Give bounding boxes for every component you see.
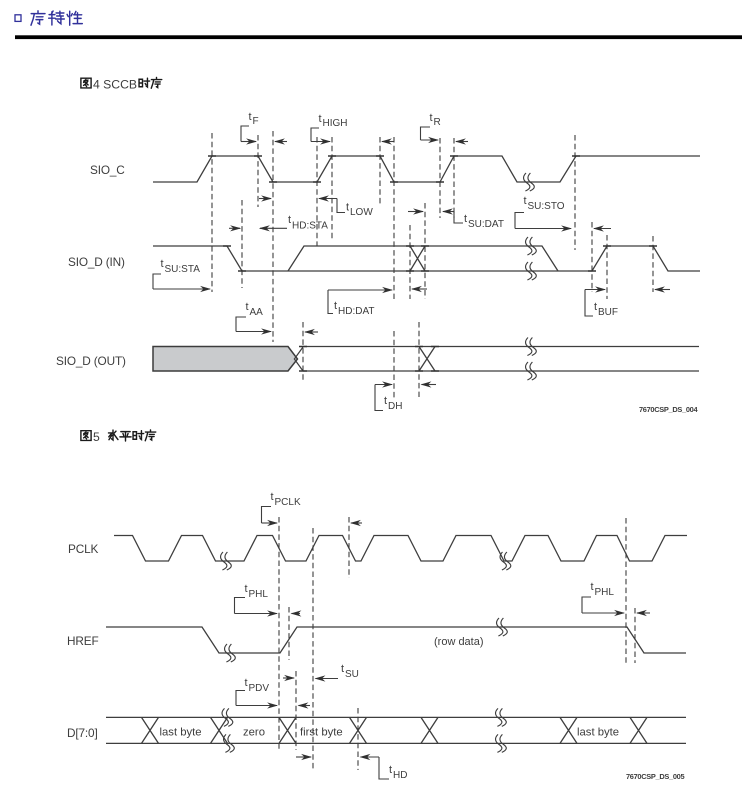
svg-text:SIO_D (IN): SIO_D (IN) xyxy=(68,255,125,269)
break marks D bus right top rail xyxy=(496,708,507,726)
arrow at x=635 xyxy=(637,612,650,614)
arrow at x=592 xyxy=(594,228,611,230)
break marks D bus right bottom rail xyxy=(496,734,507,752)
svg-text:HD:DAT: HD:DAT xyxy=(338,306,374,317)
dashed line x=410 xyxy=(409,225,411,299)
D[7:0] crossover X at 429.5 xyxy=(421,717,438,743)
D[7:0] crossover X at 287.5 xyxy=(279,717,296,743)
break marks PCLK left xyxy=(221,552,232,570)
D[7:0] crossover X at 638.5 xyxy=(630,717,647,743)
svg-text:(row data): (row data) xyxy=(434,636,484,648)
svg-text:SU:STO: SU:STO xyxy=(528,201,565,212)
waveform PCLK xyxy=(114,536,687,562)
label tPDV with leader xyxy=(236,677,277,706)
horizontal rule xyxy=(15,35,742,39)
label tSU:STA with leader xyxy=(153,258,210,289)
dashed line x=279 xyxy=(278,517,280,750)
arrow right edge of tAA interval xyxy=(305,331,318,333)
break marks D bus left bottom rail xyxy=(224,734,235,752)
break marks SIO_D(IN) high rail xyxy=(526,237,537,255)
svg-text:t: t xyxy=(341,663,344,675)
dashed line x=394 lower xyxy=(393,331,395,399)
dashed line x=626 xyxy=(625,518,627,663)
svg-text:t: t xyxy=(524,195,527,207)
label tAA with leader xyxy=(236,301,271,332)
label tF with leader xyxy=(241,111,259,142)
dashed line x=242 xyxy=(241,200,243,288)
D[7:0] crossover X at 568.5 xyxy=(560,717,577,743)
dashed line x=440 xyxy=(439,138,441,218)
SIO_D (OUT) open bus rails xyxy=(303,347,699,372)
dashed line x=419 (OUT row) xyxy=(418,322,420,397)
dashed line x=358 xyxy=(357,708,359,770)
svg-text:t: t xyxy=(246,301,249,313)
section title 序特性 xyxy=(31,11,82,25)
figure 4 caption 图4 SCCB时序 xyxy=(81,78,91,88)
svg-text:t: t xyxy=(594,301,597,313)
arrow right edge of tHIGH interval xyxy=(382,141,394,143)
svg-text:t: t xyxy=(271,491,274,503)
dashed line x=454 xyxy=(453,138,455,218)
dashed line x=313 xyxy=(312,528,314,770)
dashed line x=303 (OUT row) xyxy=(302,322,304,380)
svg-text:last byte: last byte xyxy=(160,727,202,739)
svg-text:PCLK: PCLK xyxy=(68,542,98,556)
svg-text:t: t xyxy=(346,202,349,214)
svg-text:F: F xyxy=(253,116,259,127)
arrow right edge of tPCLK interval xyxy=(351,522,362,524)
D[7:0] crossover X at 358 xyxy=(350,717,367,743)
svg-text:5: 5 xyxy=(93,430,100,444)
svg-text:t: t xyxy=(384,395,387,407)
svg-text:HD:STA: HD:STA xyxy=(292,221,328,232)
svg-text:D[7:0]: D[7:0] xyxy=(67,726,98,740)
svg-text:PHL: PHL xyxy=(595,587,615,598)
break marks SIO_D(IN) low rail xyxy=(526,262,537,280)
svg-text:zero: zero xyxy=(243,727,265,739)
svg-text:HIGH: HIGH xyxy=(323,118,348,129)
break marks PCLK right xyxy=(500,552,511,570)
svg-text:7670CSP_DS_005: 7670CSP_DS_005 xyxy=(626,772,684,781)
D[7:0] bus rails xyxy=(106,717,686,743)
D[7:0] crossover X at 150 xyxy=(142,717,159,743)
break marks SIO_D(OUT) bottom rail xyxy=(526,362,537,380)
svg-text:7670CSP_DS_004: 7670CSP_DS_004 xyxy=(639,405,698,414)
label tPHL (right) with leader xyxy=(582,581,624,613)
svg-text:R: R xyxy=(434,117,441,128)
svg-text:t: t xyxy=(161,258,164,270)
svg-text:PDV: PDV xyxy=(249,683,270,694)
arrow right edge of tR interval xyxy=(456,141,468,143)
dashed line x=296 xyxy=(295,671,297,750)
svg-text:t: t xyxy=(245,677,248,689)
label tHD:STA with arrows xyxy=(229,214,328,232)
svg-text:t: t xyxy=(464,213,467,225)
waveform SIO_D (IN) main trace xyxy=(153,246,700,271)
arrow at x=419 (OUT) xyxy=(422,384,437,386)
svg-text:AA: AA xyxy=(250,307,264,318)
tick marks figure 4 xyxy=(208,156,657,371)
arrow right edge of tF interval xyxy=(275,141,287,143)
waveform SIO_C xyxy=(153,156,700,182)
break marks D bus left top rail xyxy=(222,708,233,726)
svg-text:BUF: BUF xyxy=(598,307,618,318)
arrow at x=289 xyxy=(292,613,301,615)
svg-text:t: t xyxy=(245,583,248,595)
break marks HREF low xyxy=(225,644,236,662)
label tR with leader xyxy=(421,112,441,140)
dashed line x=289 xyxy=(288,607,290,660)
svg-text:DH: DH xyxy=(388,401,402,412)
arrow left edge at X of SIO_D(IN) xyxy=(412,288,427,290)
svg-text:SIO_C: SIO_C xyxy=(90,163,125,177)
label tPHL (left) with leader xyxy=(235,583,278,614)
waveform HREF xyxy=(106,627,686,653)
SIO_D (OUT) bus opening diagonals xyxy=(294,347,303,371)
svg-text:t: t xyxy=(591,581,594,593)
svg-text:4 SCCB: 4 SCCB xyxy=(93,77,137,91)
label tHD:DAT with leader xyxy=(328,290,392,317)
svg-text:t: t xyxy=(334,300,337,312)
svg-text:last byte: last byte xyxy=(577,727,619,739)
label tSU:STO with leader xyxy=(515,195,571,229)
svg-text:LOW: LOW xyxy=(350,207,373,218)
dashed line x=332 xyxy=(331,137,333,240)
svg-text:SIO_D (OUT): SIO_D (OUT) xyxy=(56,354,126,368)
dashed line x=653 xyxy=(652,236,654,292)
dashed line x=573 xyxy=(574,135,576,250)
svg-text:HREF: HREF xyxy=(67,634,99,648)
label tLOW with arrows xyxy=(259,199,373,219)
arrow at x=653 xyxy=(655,289,670,291)
break marks SIO_C low xyxy=(524,173,535,191)
svg-text:HD: HD xyxy=(393,770,407,781)
dashed line x=635 xyxy=(634,608,636,663)
svg-text:t: t xyxy=(430,112,433,124)
dashed line x=212 xyxy=(211,133,213,292)
svg-text:PCLK: PCLK xyxy=(275,497,301,508)
label tHD with arrows and leader xyxy=(296,757,407,781)
svg-text:SU:STA: SU:STA xyxy=(165,264,201,275)
D[7:0] crossover X at 219 xyxy=(211,717,228,743)
dashed line x=394 upper xyxy=(393,137,395,299)
SIO_D (IN) crossover X xyxy=(410,246,425,271)
svg-text:PHL: PHL xyxy=(249,589,269,600)
svg-text:first byte: first byte xyxy=(300,727,343,739)
SIO_D (OUT) driven gray bus xyxy=(153,347,298,372)
label tSU:DAT with arrows xyxy=(408,212,504,231)
dashed line x=607 xyxy=(606,235,608,299)
dashed vertical lines figure 4 xyxy=(212,131,653,399)
label tHIGH with leader xyxy=(311,113,348,142)
figure 5 caption 图5 水平时序 xyxy=(81,431,91,441)
dashed line x=592 xyxy=(591,222,593,292)
dashed line x=317 xyxy=(316,137,318,246)
dashed line x=425 xyxy=(424,203,426,299)
label tBUF with leader xyxy=(585,290,618,319)
label tPCLK with leader xyxy=(262,491,301,523)
waveform SIO_D (IN) data-high rail xyxy=(288,246,558,271)
svg-text:t: t xyxy=(288,214,291,226)
dashed line x=380 xyxy=(379,137,381,205)
dashed line x=258 xyxy=(257,135,259,207)
dashed vertical lines figure 5 xyxy=(279,517,635,770)
break marks SIO_D(OUT) top rail xyxy=(526,338,537,356)
section bullet square xyxy=(15,15,21,22)
SIO_D (OUT) crossover X xyxy=(419,347,435,372)
svg-text:t: t xyxy=(319,113,322,125)
svg-text:SU: SU xyxy=(345,669,359,680)
arrow at x=296 xyxy=(299,705,311,707)
label tDH with leader xyxy=(375,385,402,413)
svg-text:t: t xyxy=(389,764,392,776)
dashed line x=349 xyxy=(348,517,350,578)
break marks HREF high xyxy=(497,618,508,636)
svg-text:SU:DAT: SU:DAT xyxy=(468,219,504,230)
label tSU with arrows xyxy=(283,663,359,680)
svg-text:t: t xyxy=(249,111,252,123)
dashed line x=273 xyxy=(272,131,274,342)
